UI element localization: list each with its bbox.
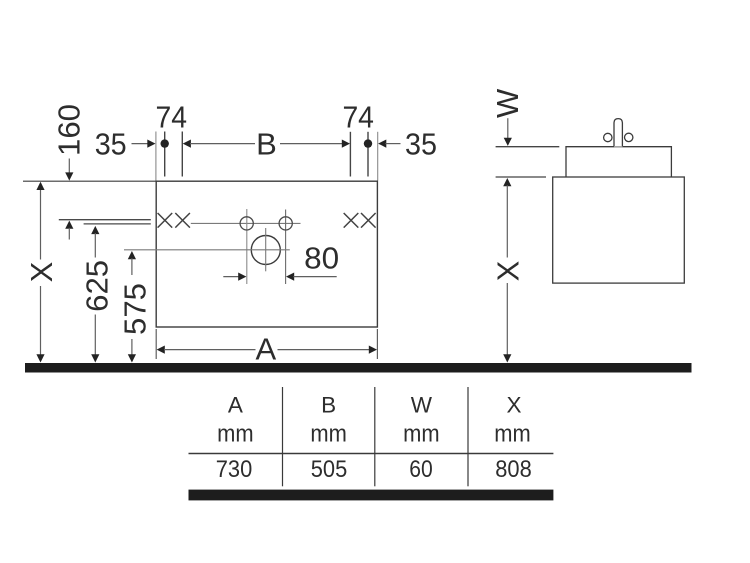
dimension B: right arrow	[342, 140, 350, 148]
faucet hole vertical centerline	[265, 228, 267, 271]
table column separator 3	[467, 387, 469, 486]
hole tick 2	[181, 132, 183, 177]
svg-text:A: A	[256, 332, 277, 367]
faucet body	[614, 119, 622, 147]
top extension line	[23, 180, 156, 182]
hole tick 2	[367, 132, 369, 177]
dimension 35 right arrow	[378, 140, 386, 148]
top ticks right: hole tick 1	[349, 132, 351, 177]
svg-text:W: W	[411, 392, 433, 417]
dimension 80: right arrow (pointing left)	[286, 273, 294, 281]
mounting cross right 2	[361, 213, 376, 228]
svg-text:575: 575	[117, 283, 152, 335]
top ticks left group: edge extension	[155, 132, 157, 181]
faucet hole horizontal centerline	[124, 249, 290, 251]
svg-text:808: 808	[495, 456, 532, 483]
shelf line lower	[84, 223, 151, 225]
svg-text:505: 505	[311, 456, 348, 483]
table horizontal rule	[189, 453, 554, 455]
dimension 35 left arrow	[132, 143, 149, 145]
reference line cabinet top	[496, 176, 546, 178]
svg-text:mm: mm	[403, 421, 440, 448]
hole centerline 2	[285, 210, 287, 285]
shelf line upper	[59, 219, 151, 221]
short up arrow at shelf line	[65, 221, 73, 229]
dimension 575: down arrow	[128, 354, 136, 362]
svg-text:B: B	[321, 392, 336, 417]
dimension X left: shaft	[40, 183, 42, 260]
floor line	[25, 363, 692, 373]
svg-text:W: W	[490, 88, 525, 118]
hole reference line	[191, 222, 301, 224]
svg-text:mm: mm	[310, 421, 347, 448]
svg-text:74: 74	[342, 100, 374, 135]
dimension 625: up arrow	[91, 226, 99, 234]
faucet hole circle	[251, 236, 280, 265]
hole dot right	[364, 139, 372, 147]
dimension 80: left arrow (pointing right)	[223, 276, 239, 278]
svg-text:74: 74	[156, 100, 188, 135]
svg-text:A: A	[228, 392, 243, 417]
dimension W: down arrow	[507, 118, 509, 138]
table column separator 1	[282, 387, 284, 486]
svg-text:mm: mm	[217, 421, 254, 448]
dimension 575: up arrow	[128, 251, 136, 259]
side view washbasin outline	[566, 147, 671, 177]
faucet base line	[614, 146, 622, 148]
table column separator 2	[374, 387, 376, 486]
hole tick 1	[164, 132, 166, 177]
dimension 160: down arrow to top line	[68, 159, 70, 174]
svg-text:X: X	[506, 392, 521, 417]
dimension B: left arrow	[183, 140, 191, 148]
dimension X left: down arrow	[36, 354, 44, 362]
hole dot left	[161, 139, 169, 147]
mounting cross left 2	[175, 213, 190, 228]
svg-text:X: X	[490, 260, 525, 281]
table bottom bar	[189, 490, 554, 501]
edge extension right	[377, 132, 379, 181]
reference line basin top	[496, 146, 560, 148]
svg-text:730: 730	[216, 456, 253, 483]
svg-text:80: 80	[304, 240, 339, 275]
svg-text:35: 35	[405, 127, 437, 162]
dimension X right: up arrow	[503, 178, 511, 186]
svg-text:B: B	[256, 127, 277, 162]
faucet handle right	[625, 133, 633, 141]
pilot hole circle 2	[279, 217, 292, 230]
front view cabinet outline	[156, 181, 377, 327]
svg-text:60: 60	[409, 456, 433, 483]
side view cabinet outline	[553, 177, 685, 283]
hole centerline 1	[246, 209, 248, 284]
svg-text:35: 35	[95, 127, 127, 162]
svg-text:mm: mm	[494, 421, 531, 448]
mounting cross right 1	[344, 213, 359, 228]
pilot hole circle 1	[240, 217, 253, 230]
faucet handle left	[604, 133, 612, 141]
dimension A: line and arrows	[157, 346, 165, 354]
dimension X right: down arrow	[503, 354, 511, 362]
svg-text:160: 160	[51, 104, 86, 156]
svg-text:625: 625	[79, 260, 114, 312]
dimension X left: up arrow	[36, 182, 44, 190]
dimension 625: down arrow	[91, 354, 99, 362]
svg-text:X: X	[24, 261, 59, 282]
mounting cross left 1	[158, 213, 173, 228]
dimension A: extension lines	[155, 329, 157, 359]
